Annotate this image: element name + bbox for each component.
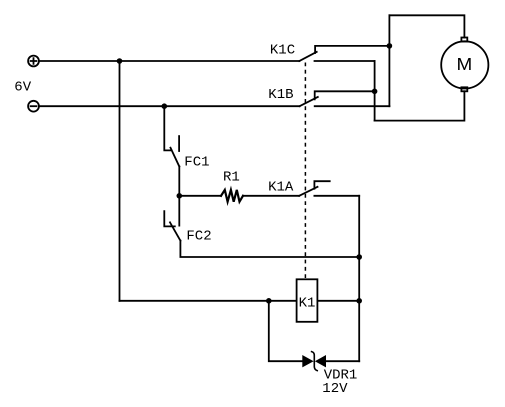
svg-text:FC1: FC1 — [184, 154, 209, 170]
relay contact K1A blade — [299, 187, 317, 196]
junction node E (coil right) — [356, 298, 362, 304]
wire - rail — [39, 105, 299, 107]
svg-text:R1: R1 — [223, 169, 240, 185]
switch FC2 blade — [170, 222, 180, 240]
relay coil K1 — [297, 279, 318, 322]
wire coil left lead — [269, 300, 297, 302]
wire left vertical drop — [119, 61, 121, 301]
relay contact K1C upper throw — [315, 46, 389, 53]
svg-text:K1A: K1A — [268, 179, 294, 195]
wire + rail — [39, 60, 299, 62]
junction node F (coil left) — [266, 298, 272, 304]
wire right vertical (motor top net) — [388, 15, 390, 106]
wire node C to R1 — [179, 195, 221, 197]
wire motor bottom net vertical — [374, 61, 376, 121]
switch FC2 stop stub — [164, 211, 175, 226]
mechanical linkage K1 dashed — [304, 63, 306, 280]
svg-text:K1C: K1C — [270, 43, 295, 59]
battery - terminal — [28, 101, 39, 112]
resistor R1 — [221, 190, 243, 202]
svg-text:K1B: K1B — [268, 87, 293, 103]
switch FC1 blade — [171, 148, 180, 167]
wire coil left to VDR — [269, 301, 303, 361]
svg-text:FC2: FC2 — [186, 228, 211, 244]
wire right mid vertical — [358, 196, 360, 361]
junction node D (FC2/K1A) — [356, 254, 362, 260]
junction node B (-rail to FC1) — [162, 103, 168, 109]
varistor VDR1 — [302, 352, 326, 371]
wire FC1 top lead — [164, 106, 171, 150]
junction node A (+rail to coil drop) — [117, 58, 123, 64]
motor M1 top brush — [461, 38, 467, 42]
junction node G (K1C upper/right vertical) — [387, 43, 393, 49]
relay contact K1A upper throw — [314, 181, 329, 189]
svg-text:6V: 6V — [14, 80, 31, 96]
wire FC1 bottom lead / FC2 top lead — [178, 167, 180, 226]
svg-text:12V: 12V — [322, 381, 348, 397]
wire VDR right lead — [326, 360, 359, 362]
relay contact K1B lower throw — [315, 105, 390, 107]
wire motor top feed — [389, 15, 464, 37]
relay contact K1B upper throw — [315, 91, 375, 99]
relay contact K1C lower throw — [315, 60, 375, 62]
switch FC1 open contact tick — [178, 136, 180, 151]
wire R1 to K1A — [243, 195, 299, 197]
junction node H (K1B upper/motor bottom net) — [372, 89, 378, 95]
svg-text:M: M — [457, 54, 473, 73]
relay contact K1B blade — [300, 97, 318, 106]
wire motor bottom feed — [375, 91, 465, 120]
motor M1 body — [441, 41, 488, 88]
wire bottom-left horizontal to coil — [120, 300, 269, 302]
wire coil right lead — [317, 300, 359, 302]
motor M1 bottom brush — [461, 87, 467, 91]
relay contact K1A lower throw — [314, 195, 359, 197]
junction node C (FC1/FC2/R1) — [177, 193, 183, 199]
wire FC2 bottom lead — [180, 241, 359, 257]
relay contact K1C blade — [299, 52, 316, 61]
battery + terminal — [28, 56, 39, 67]
svg-text:K1: K1 — [299, 295, 316, 311]
